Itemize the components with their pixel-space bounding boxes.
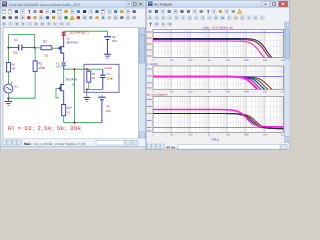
plot 2 curve magenta: [153, 77, 284, 94]
wire R1 to ground rail: [8, 72, 35, 99]
svg-text:50: 50: [12, 67, 16, 71]
right scrollbar: [285, 22, 291, 143]
plot 1 curve navy: [153, 39, 284, 63]
svg-text:R3*: R3*: [67, 106, 73, 110]
node A junction: [7, 47, 9, 49]
svg-text:AC An...: AC An...: [166, 145, 178, 149]
load bottom bus: [87, 89, 103, 91]
rail junction: [73, 122, 75, 124]
plot 2 curve green: [153, 77, 284, 93]
left scrollbar: [139, 28, 146, 139]
negative rail: [64, 122, 102, 124]
transistor J2 BF245A: [63, 69, 65, 84]
svg-text:100k: 100k: [38, 66, 45, 70]
ground node junction: [7, 97, 9, 99]
svg-text:V1: V1: [14, 84, 18, 88]
plot 2 cursor line: [153, 76, 284, 78]
wire X2 to output node: [63, 66, 65, 69]
right title icon: [148, 2, 153, 7]
wire output node to load: [64, 68, 89, 70]
svg-text:1M: 1M: [263, 59, 266, 62]
left toolbars: [1, 9, 146, 28]
plot 2 frame and grid: [153, 66, 284, 89]
resistor RL: [88, 69, 90, 71]
resistor R3: [62, 105, 66, 116]
svg-text:J2: J2: [72, 83, 76, 87]
svg-text:Main: Main: [24, 142, 31, 146]
resistor R2: [41, 46, 52, 50]
svg-text:10R: 10R: [55, 65, 60, 69]
svg-text:R2: R2: [43, 40, 47, 44]
plot area background: [147, 27, 285, 144]
left window frame: [0, 0, 146, 150]
plot 3 curve green: [153, 114, 284, 129]
voltage source V1: [4, 84, 13, 93]
battery V2: [104, 36, 111, 38]
svg-text:T: T: [207, 9, 210, 14]
battery V3: [101, 95, 103, 97]
svg-text:10u: 10u: [13, 50, 18, 54]
wire top rail J1 drain to V2: [64, 30, 108, 32]
plot 1 y labels: [147, 31, 152, 34]
svg-text:1M: 1M: [263, 134, 266, 137]
ground symbol below V2: [104, 53, 111, 55]
wire V1 to ground node: [7, 93, 9, 98]
svg-text:C1: C1: [14, 38, 18, 42]
svg-text:100: 100: [188, 59, 193, 62]
plot 3 cursor line: [153, 127, 284, 129]
svg-text:18V: 18V: [106, 109, 111, 113]
small third row: [147, 22, 290, 27]
svg-text:Ri = 50; 2,5k; 5k; 30k: Ri = 50; 2,5k; 5k; 30k: [8, 126, 82, 132]
svg-text:f (Hz): f (Hz): [211, 137, 219, 141]
ground symbol below load: [83, 96, 90, 98]
left title bar: [1, 1, 146, 9]
svg-text:AC Analysis: AC Analysis: [154, 3, 172, 7]
plot 2 curve navy: [153, 77, 284, 94]
left bottom tab bar: [1, 139, 146, 147]
plot 1 curve magenta: [153, 41, 284, 62]
plot 1 frame and grid: [153, 30, 284, 58]
svg-text:BF245A: BF245A: [66, 78, 78, 82]
node B junction: [34, 47, 36, 49]
plot 2 curve purple: [153, 77, 284, 94]
svg-text:Test_1_Nimble_v: Test_1_Nimble_v: [33, 142, 57, 146]
svg-text:2_BS_: 2_BS_: [78, 142, 87, 146]
svg-text:Load: Load: [104, 66, 112, 70]
svg-text:51: 51: [67, 111, 71, 115]
plot 3 curve magenta: [153, 110, 284, 127]
left title icon: [2, 2, 7, 7]
svg-text:2k: 2k: [92, 76, 96, 80]
schematic canvas: [3, 28, 139, 139]
transistor J1 BF245A: [58, 47, 61, 49]
J2 gate wire: [56, 88, 59, 98]
capacitor C1: [8, 47, 18, 49]
plot 1 cursor line: [153, 32, 284, 34]
svg-text:T: T: [28, 10, 31, 15]
plot 3 y labels: [147, 98, 152, 101]
svg-text:100: 100: [188, 91, 193, 94]
left window bottom edge: [1, 146, 146, 148]
svg-text:100k: 100k: [243, 91, 249, 94]
wire R2 to J1 gate: [52, 47, 58, 49]
wire load top bus: [89, 68, 103, 70]
resistor Ri: [7, 63, 11, 72]
plot 3 curve navy: [153, 114, 284, 129]
svg-text:ph_out, Degrees: ph_out, Degrees: [147, 93, 168, 97]
right window buttons: [262, 2, 270, 7]
wire node B to R2: [35, 47, 41, 49]
right bottom tab bar: [147, 143, 290, 150]
capacitor CL: [102, 69, 104, 75]
right window frame: [146, 0, 290, 150]
svg-text:BF245A: BF245A: [67, 41, 79, 45]
left window buttons: [126, 2, 131, 7]
plot 3 frame and grid: [153, 97, 284, 133]
svg-text:100k: 100k: [243, 134, 249, 137]
jumper X2 on J1 source: [62, 62, 66, 66]
svg-text:100: 100: [188, 134, 193, 137]
load bottom junction: [86, 88, 88, 90]
wire load to ground: [86, 90, 88, 98]
svg-text:R1: R1: [38, 61, 42, 65]
wire R3 to negative rail: [63, 116, 65, 123]
wire: bypass loop over C1: [8, 35, 34, 48]
resistor R1: [33, 61, 37, 72]
svg-text:18V: 18V: [112, 39, 117, 43]
wire node B down to R1: [34, 48, 36, 61]
svg-text:51: 51: [45, 53, 49, 57]
red X current-probe marker at J1 drain: [62, 32, 66, 36]
plot 2 y labels: [147, 68, 152, 71]
plot 1 curve dark red: [153, 40, 284, 63]
output junction: [73, 68, 75, 70]
wire Ri to V1: [7, 72, 9, 84]
wire: left column V1 to node A: [7, 48, 9, 63]
plot 2 curve red: [153, 77, 284, 94]
right toolbars: [147, 8, 290, 22]
svg-text:Power Supplies: Power Supplies: [56, 142, 77, 146]
plot 3 curve dark red: [153, 114, 284, 129]
load entry junction: [86, 68, 88, 70]
svg-text:_#X1.50(kHz)_Bu: _#X1.50(kHz)_Bu: [210, 26, 234, 30]
ground symbol below V1: [7, 98, 9, 101]
svg-text:100k: 100k: [243, 59, 249, 62]
load box: [84, 64, 119, 92]
svg-text:volta: volta: [203, 26, 209, 30]
svg-text:v_out(V): v_out(V): [147, 62, 158, 66]
svg-text:T: T: [149, 22, 152, 27]
svg-text:150p: 150p: [106, 76, 113, 80]
svg-text:1M: 1M: [263, 91, 266, 94]
svg-text:C:\ACAD\TINA\AMP source follow: C:\ACAD\TINA\AMP source follower buffer_…: [9, 3, 81, 7]
wire output down to negative rail: [74, 69, 76, 123]
right title bar: [147, 1, 290, 9]
